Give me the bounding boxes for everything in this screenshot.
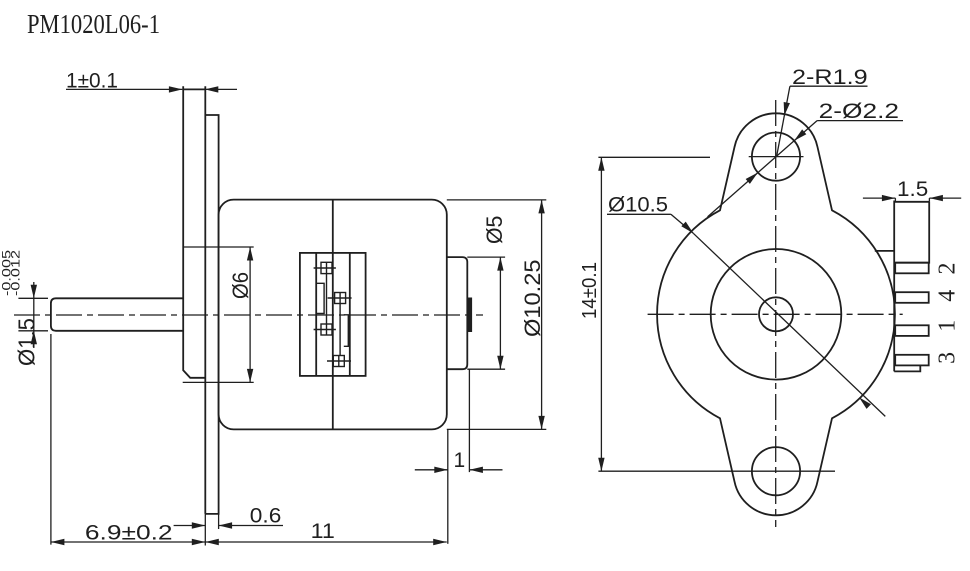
dimension 14±0.1	[598, 157, 835, 471]
svg-text:6.9±0.2: 6.9±0.2	[85, 522, 173, 545]
dimension 1.5	[863, 198, 961, 202]
dimension 1 rear boss	[415, 369, 503, 544]
svg-text:Ø1.5: Ø1.5	[14, 318, 40, 366]
svg-text:1: 1	[935, 320, 961, 332]
label wire step A	[316, 283, 324, 313]
terminal housing bottom	[894, 365, 920, 371]
rear boss	[447, 257, 468, 369]
leader 2-Ø2.2	[708, 121, 904, 217]
label schematic symbol box 3	[314, 324, 336, 335]
shaft circle front view	[759, 297, 793, 331]
svg-text:2: 2	[935, 263, 961, 275]
svg-text:2-Ø2.2: 2-Ø2.2	[819, 100, 899, 123]
svg-text:PM1020L06-1: PM1020L06-1	[27, 9, 160, 39]
terminal housing meets body	[875, 250, 894, 252]
svg-text:Ø6: Ø6	[228, 272, 253, 299]
body parting line	[332, 200, 334, 430]
dimension Ø6	[183, 247, 254, 382]
shaft	[51, 298, 183, 331]
dimension 0.6	[174, 514, 283, 546]
dimension Ø1.5 with tolerance	[18, 282, 48, 348]
svg-text:3: 3	[935, 352, 961, 364]
label wire step B	[344, 315, 349, 347]
svg-text:2-R1.9: 2-R1.9	[792, 66, 868, 89]
dimension 1±0.1	[66, 88, 237, 90]
terminal tab 1.5	[895, 202, 929, 263]
rotor circle Ø6	[711, 249, 842, 380]
flange outline front view	[657, 113, 895, 515]
mounting hole top Ø2.2	[752, 133, 800, 181]
label plate outline	[300, 253, 366, 376]
pin 4	[895, 292, 929, 303]
terminal housing back edge	[893, 201, 895, 372]
svg-text:1.5: 1.5	[897, 178, 928, 201]
svg-text:11: 11	[311, 520, 335, 543]
svg-text:Ø5: Ø5	[482, 216, 507, 244]
top hole horizontal centerline	[749, 156, 804, 158]
leader 2-R1.9	[777, 86, 868, 157]
dimension Ø10.5 leader	[607, 214, 885, 416]
label wire vertical 2	[339, 304, 341, 356]
svg-text:Ø10.5: Ø10.5	[608, 194, 668, 217]
motor body rounded rect	[219, 200, 447, 430]
rear shaft stub	[467, 298, 471, 331]
svg-text:0.6: 0.6	[250, 505, 281, 528]
terminal housing top edge	[894, 201, 929, 203]
svg-text:1±0.1: 1±0.1	[66, 70, 118, 93]
spacer plate 0.6mm	[205, 115, 218, 514]
dimension Ø10.25	[447, 200, 547, 430]
svg-text:-0.012: -0.012	[9, 250, 23, 296]
dimension 6.9±0.2	[51, 334, 205, 545]
pin 1	[895, 325, 929, 336]
pin 3	[895, 355, 929, 366]
label wire vertical 1	[326, 274, 328, 324]
svg-text:1: 1	[454, 449, 466, 472]
front view horizontal centerline	[648, 313, 903, 315]
dimension Ø5	[467, 257, 505, 369]
pin 2	[895, 263, 929, 274]
svg-text:Ø10.25: Ø10.25	[520, 260, 545, 338]
svg-text:4: 4	[935, 290, 961, 302]
centerline side view	[14, 314, 483, 316]
front view vertical centerline	[775, 100, 777, 527]
label schematic symbol box 1	[314, 262, 336, 273]
svg-text:14±0.1: 14±0.1	[579, 262, 601, 319]
dimension 11	[205, 541, 446, 543]
flange plate 1mm	[183, 86, 205, 514]
label schematic symbol box 4	[327, 356, 351, 367]
mounting hole bottom Ø2.2	[752, 447, 800, 495]
label schematic symbol box 2	[328, 293, 352, 304]
